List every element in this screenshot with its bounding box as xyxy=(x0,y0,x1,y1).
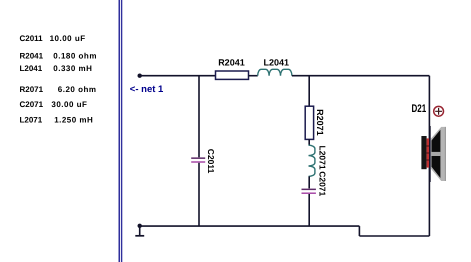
svg-text:D21: D21 xyxy=(412,103,427,115)
svg-text:<- net 1: <- net 1 xyxy=(130,84,164,95)
wire top right segment xyxy=(292,75,430,77)
wire right vertical xyxy=(428,76,430,236)
node net 1 junction dot xyxy=(138,74,142,78)
svg-text:L2071: L2071 xyxy=(20,115,43,124)
speaker D21 coil stripe xyxy=(427,138,430,167)
svg-text:C2011: C2011 xyxy=(206,149,216,174)
wire resistor to coil xyxy=(249,75,258,77)
wire middle branch lower xyxy=(308,194,310,226)
value label L2071 1.250 mH xyxy=(20,115,94,124)
value label R2071 6.20 ohm xyxy=(20,85,97,94)
value label C2011 10.00 uF xyxy=(20,34,86,43)
speaker D21 cone xyxy=(431,127,446,181)
value label R2041 0.180 ohm xyxy=(20,52,97,61)
svg-text:C2011: C2011 xyxy=(20,34,44,43)
svg-text:R2071: R2071 xyxy=(315,109,325,136)
svg-text:6.20 ohm: 6.20 ohm xyxy=(58,85,97,94)
svg-text:R2071: R2071 xyxy=(20,85,44,94)
svg-text:R2041: R2041 xyxy=(20,52,44,61)
value label L2041 0.330 mH xyxy=(20,64,93,73)
wire C2011 branch upper xyxy=(198,76,200,158)
svg-text:30.00 uF: 30.00 uF xyxy=(51,100,87,109)
resistor R2041 xyxy=(216,71,249,79)
speaker D21 magnet xyxy=(421,136,426,169)
wire middle branch upper xyxy=(308,76,310,107)
svg-text:R2041: R2041 xyxy=(218,58,245,68)
svg-text:L2041: L2041 xyxy=(264,58,290,68)
value label C2071 30.00 uF xyxy=(20,100,88,109)
ground xyxy=(135,226,144,236)
capacitor C2011 xyxy=(191,157,205,162)
svg-text:C2071: C2071 xyxy=(20,100,44,109)
polarity mark plus xyxy=(434,106,444,116)
ground junction dot xyxy=(138,224,142,228)
svg-text:C2071: C2071 xyxy=(318,171,328,196)
svg-text:1.250 mH: 1.250 mH xyxy=(54,115,93,124)
svg-text:0.330 mH: 0.330 mH xyxy=(53,64,92,73)
separator line (left pane border) xyxy=(119,0,123,262)
svg-text:0.180 ohm: 0.180 ohm xyxy=(53,52,97,61)
wire bottom bus xyxy=(140,225,360,227)
resistor R2071 xyxy=(305,106,313,139)
wire step vertical xyxy=(358,226,360,236)
wire bottom right horizontal xyxy=(359,235,429,237)
inductor L2041 xyxy=(258,69,292,75)
wire top left segment xyxy=(140,75,216,77)
wire resistor to coil middle xyxy=(308,139,310,145)
svg-text:L2071: L2071 xyxy=(318,146,328,170)
capacitor C2071 xyxy=(302,189,316,194)
wire C2011 branch lower xyxy=(198,163,200,226)
svg-text:10.00 uF: 10.00 uF xyxy=(50,34,86,43)
wire coil to cap middle xyxy=(308,176,310,188)
inductor L2071 xyxy=(309,145,315,176)
wire over speaker xyxy=(429,126,431,182)
svg-text:L2041: L2041 xyxy=(20,64,43,73)
